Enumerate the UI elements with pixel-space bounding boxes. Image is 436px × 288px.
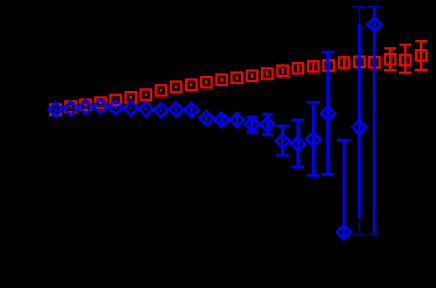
blue diamond point 10 (184, 103, 198, 117)
red square point 21 (354, 54, 364, 69)
blue diamond point 15 (260, 114, 274, 134)
blue diamond point 6 (124, 101, 138, 115)
red square point 13 (232, 73, 242, 83)
blue diamond point 14 (245, 117, 259, 132)
red square point 19 (323, 60, 333, 71)
red square point 11 (201, 77, 211, 87)
red square point 14 (247, 71, 257, 81)
blue diamond point 5 (109, 100, 123, 114)
red square point 15 (262, 68, 272, 78)
blue diamond point 21 (352, 7, 366, 234)
blue diamond point 3 (79, 100, 93, 114)
red square point 5 (110, 95, 120, 105)
red square point 2 (65, 101, 75, 111)
blue diamond point 12 (215, 113, 229, 127)
red square point 6 (126, 92, 136, 102)
red square point 9 (171, 82, 181, 92)
red series: open squares with error bars (50, 41, 427, 115)
red square point 7 (141, 89, 151, 99)
red square point 1 (50, 104, 60, 114)
red square point 12 (216, 75, 226, 85)
red square point 17 (293, 63, 303, 73)
blue diamond point 11 (199, 111, 213, 125)
red square point 3 (80, 100, 90, 110)
red square point 22 (369, 55, 379, 70)
red square point 23 (384, 48, 397, 70)
blue diamond point 17 (291, 120, 305, 167)
blue series: open diamonds with error bars (49, 7, 382, 239)
red square point 20 (339, 56, 349, 70)
blue diamond point 19 (321, 52, 335, 174)
red square point 10 (186, 80, 196, 90)
blue diamond point 20 (337, 140, 351, 239)
blue diamond point 7 (139, 102, 153, 116)
red square point 16 (277, 66, 287, 76)
blue diamond point 18 (306, 102, 320, 175)
red square point 8 (156, 85, 166, 95)
blue diamond point 13 (230, 113, 244, 127)
red square point 18 (308, 61, 318, 71)
blue diamond point 8 (154, 103, 168, 117)
red square point 25 (415, 41, 428, 70)
blue diamond point 9 (169, 102, 183, 116)
blue diamond point 16 (276, 126, 290, 155)
blue diamond point 4 (94, 99, 108, 113)
blue diamond point 2 (64, 101, 78, 115)
blue diamond point 1 (49, 103, 63, 117)
red square point 4 (95, 97, 105, 107)
red square point 24 (399, 45, 412, 73)
blue diamond point 22 (367, 7, 381, 234)
